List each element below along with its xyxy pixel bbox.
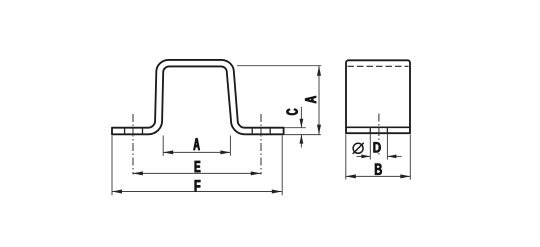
label E [195, 161, 201, 172]
dim A horizontal: extension lines [162, 136, 164, 156]
dim F: extension lines [111, 136, 113, 196]
right view body outline [346, 60, 410, 133]
right view hidden (dashed) line [348, 65, 409, 67]
left hole tick marks [124, 127, 126, 134]
dim D: arrow lines [357, 155, 371, 157]
dim C: extension lines [285, 127, 306, 129]
label A (rotated) [305, 96, 316, 103]
right hole tick marks [251, 127, 253, 134]
dim A horizontal: dimension line [163, 151, 230, 153]
dim B: dimension line [346, 175, 411, 177]
dim F: dimension line [112, 191, 282, 193]
dim A vertical: extension line (top) [237, 65, 321, 67]
centerline right hole [260, 114, 262, 175]
right view hole edge lines [369, 127, 371, 135]
label A [194, 138, 200, 150]
label F [195, 180, 201, 191]
right view hole centerline [378, 114, 380, 157]
label B [375, 164, 382, 175]
bracket profile (left view outline) [112, 60, 284, 134]
D extension lines [369, 134, 371, 160]
label D [374, 142, 381, 152]
label C (rotated) [287, 109, 298, 115]
right view flange top line [346, 126, 410, 128]
dim A vertical: dimension line [318, 66, 320, 135]
diameter symbol [353, 143, 363, 153]
dim E: dimension line [133, 172, 261, 174]
dim C: arrow lines [300, 107, 302, 128]
centerline left hole [132, 114, 134, 175]
dim B: extension lines [345, 135, 347, 180]
